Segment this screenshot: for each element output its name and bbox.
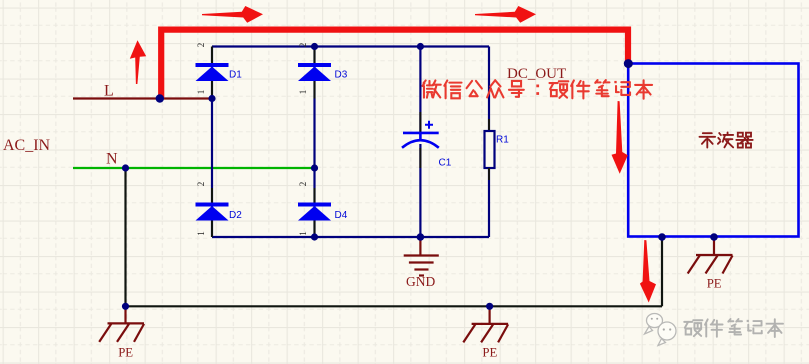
svg-text:AC_IN: AC_IN [3, 137, 51, 154]
svg-text:PE: PE [118, 346, 133, 360]
wire bridge right column [313, 47, 315, 238]
wire cap bottom [419, 144, 421, 237]
junction scope / PE [710, 233, 718, 241]
svg-text:2: 2 [298, 182, 308, 187]
junction N / earth tap [122, 164, 129, 171]
flow arrow right top-left [202, 6, 263, 23]
ground GND [404, 237, 439, 276]
junction - rail / GND [417, 233, 425, 241]
junction L / red path tap [156, 94, 164, 102]
wire bridge left column [211, 47, 213, 238]
svg-text:C1: C1 [439, 158, 452, 169]
junction N / D3-D4 [311, 164, 318, 171]
diode D1 [196, 63, 229, 67]
junction + rail / C1 [417, 43, 424, 50]
junction earth bus corner [122, 303, 129, 310]
wire L (phase input) [73, 97, 212, 99]
logo icon (chat bubbles) [645, 314, 677, 346]
capacitor C1 [403, 132, 439, 135]
flow arrow down (DC_OUT) [612, 101, 628, 174]
junction L / D1-D2 [208, 95, 215, 102]
svg-text:L: L [104, 83, 114, 100]
watermark 微信公众号：硬件笔记本 [422, 80, 652, 99]
svg-text:D1: D1 [229, 70, 242, 81]
flow arrow right top-middle [475, 6, 536, 23]
junction scope / earth [658, 233, 666, 241]
junction earth bus / PE [486, 303, 493, 310]
wire earth bus up to scope [661, 237, 663, 306]
svg-text:GND: GND [406, 274, 435, 289]
label oscilloscope (示波器) [699, 132, 752, 147]
wire N tap down to earth bus [124, 168, 126, 306]
node DC_OUT [624, 59, 633, 68]
ground PE left [99, 306, 144, 342]
svg-text:2: 2 [298, 43, 308, 48]
svg-text:2: 2 [196, 182, 206, 187]
svg-text:R1: R1 [496, 135, 509, 146]
wire N (neutral input) [73, 167, 315, 169]
svg-text:1: 1 [298, 90, 308, 95]
resistor R1 [485, 131, 495, 168]
svg-text:PE: PE [707, 277, 722, 291]
svg-text:1: 1 [298, 231, 308, 236]
svg-text:D4: D4 [335, 210, 348, 221]
flow arrow up (left) [130, 40, 146, 84]
wire earth bus horizontal [126, 305, 663, 307]
svg-text:N: N [106, 151, 118, 168]
wire bottom - rail [212, 236, 489, 238]
ground PE middle [463, 307, 508, 343]
svg-text:D3: D3 [335, 70, 348, 81]
wire top + rail [212, 45, 489, 47]
wire resistor bottom [488, 168, 490, 237]
diode D2 [196, 203, 229, 207]
wire cap top [419, 47, 421, 133]
svg-text:1: 1 [196, 90, 206, 95]
oscilloscope box [628, 64, 798, 237]
svg-text:2: 2 [196, 43, 206, 48]
ground PE scope [688, 238, 733, 274]
red highlighted current path wire [161, 30, 628, 99]
logo text 硬件笔记本 [684, 319, 783, 337]
diode D3 [298, 63, 331, 67]
wire resistor top [488, 47, 490, 132]
diode D4 [298, 203, 331, 207]
svg-text:PE: PE [482, 346, 497, 360]
junction - rail / D4 [311, 233, 318, 240]
flow arrow down (earth) [640, 240, 656, 303]
svg-text:D2: D2 [229, 210, 242, 221]
junction + rail / D3 [311, 43, 318, 50]
svg-text:DC_OUT: DC_OUT [507, 66, 566, 82]
svg-text:1: 1 [196, 231, 206, 236]
